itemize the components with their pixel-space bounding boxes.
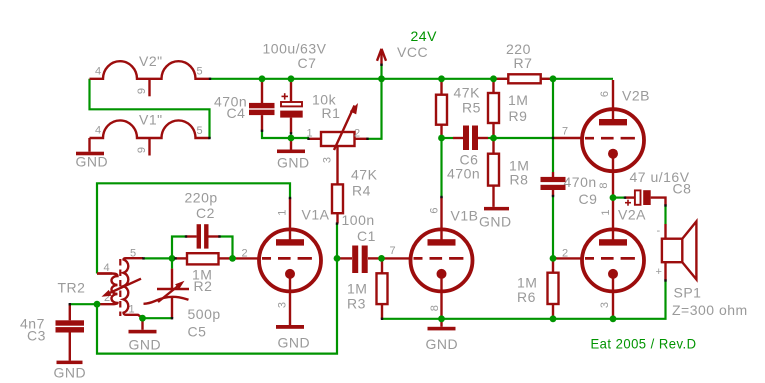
capacitor C6 (442, 137, 454, 139)
ground below TR2 pin1 (141, 318, 143, 330)
svg-text:1M: 1M (508, 92, 528, 108)
V1A grid dashes (262, 257, 312, 260)
svg-text:R9: R9 (509, 108, 528, 124)
svg-text:R4: R4 (352, 183, 371, 199)
wire: V1B pin6 from C6 line down (440, 138, 442, 197)
triode V2B circle (582, 109, 644, 171)
svg-text:47K: 47K (351, 166, 378, 182)
svg-text:R3: R3 (347, 296, 366, 312)
V1B grid dashes (414, 257, 464, 260)
svg-text:GND: GND (277, 155, 310, 171)
wire: bottom bus from R3 to SP1 plus pin (382, 281, 666, 319)
svg-text:V2B: V2B (622, 88, 650, 104)
svg-text:VCC: VCC (397, 44, 428, 60)
svg-text:9: 9 (136, 88, 148, 94)
V2B cathode dot (608, 149, 618, 159)
wire: TR2 pin5 to R2/C2/C5 junction (144, 257, 173, 259)
V1B pin 6 stub (440, 197, 442, 242)
V2A grid dashes (585, 257, 635, 260)
svg-text:R5: R5 (462, 100, 481, 116)
V1B pin 8 stub (440, 274, 442, 319)
svg-text:7: 7 (390, 245, 396, 257)
svg-text:1: 1 (277, 210, 289, 216)
svg-text:V2A: V2A (618, 207, 646, 223)
capacitor C1 plates (352, 246, 358, 274)
V2B anode plate bar (599, 119, 627, 125)
svg-text:GND: GND (129, 337, 162, 353)
svg-text:C3: C3 (27, 328, 46, 344)
capacitor C2 (186, 235, 197, 237)
svg-text:3: 3 (322, 157, 334, 163)
svg-text:3: 3 (599, 302, 611, 308)
wire: R1 pin2 up to VCC rail (368, 79, 382, 139)
svg-text:9: 9 (136, 147, 148, 153)
resistor R7 (494, 78, 509, 80)
R1 pin1 stub (309, 138, 322, 140)
svg-text:6: 6 (429, 207, 441, 213)
svg-text:GND: GND (54, 365, 87, 381)
svg-text:220p: 220p (185, 190, 218, 206)
resistor R2 body (187, 253, 219, 264)
resistor R8 (492, 138, 494, 154)
R1 pin3 down to R4 (336, 146, 338, 184)
svg-text:V1": V1" (139, 111, 163, 127)
svg-text:1M: 1M (347, 281, 367, 297)
svg-text:SP1: SP1 (674, 285, 702, 301)
wire: VCC pin to rail (380, 65, 382, 79)
svg-text:TR2: TR2 (58, 279, 86, 295)
V2B pin 7 stub (553, 137, 583, 139)
svg-text:5: 5 (197, 125, 203, 137)
svg-text:7: 7 (562, 126, 568, 138)
V1A cathode dot (285, 269, 295, 279)
wire: top VCC rail (210, 78, 613, 80)
R1 pin2 stub (355, 138, 368, 140)
wire: V2" pin4 down-right to V1" pin5 (90, 79, 210, 138)
svg-text:C4: C4 (227, 105, 246, 121)
V2A pin 1 stub (612, 198, 614, 242)
TR2 core dashed line (119, 259, 121, 316)
svg-text:470n: 470n (447, 165, 480, 181)
svg-text:100u/63V: 100u/63V (263, 41, 327, 57)
svg-text:100n: 100n (342, 212, 375, 228)
svg-text:C5: C5 (188, 324, 207, 340)
svg-text:470n: 470n (564, 174, 597, 190)
inductor V1" (90, 120, 210, 138)
TR2 pin2 junction to C3 (70, 303, 97, 305)
resistor R3 (381, 258, 383, 273)
svg-text:C7: C7 (298, 55, 317, 71)
svg-text:R8: R8 (510, 172, 529, 188)
VCC supply arrow (380, 50, 382, 65)
pin connection dark dots (69, 64, 667, 320)
capacitor C4 (261, 80, 263, 103)
TR2 adjustment arrow (107, 279, 142, 295)
capacitor C8 (polarized) (613, 197, 626, 199)
TR2 pin4 stub (97, 272, 112, 274)
svg-text:-: - (657, 225, 661, 237)
wire and V2A pin 2 stub (553, 257, 557, 259)
ground below V1B pin 8 (440, 319, 442, 327)
capacitor C3 (69, 304, 71, 320)
potentiometer R1 body (321, 132, 355, 146)
svg-text:6: 6 (599, 91, 611, 97)
svg-text:GND: GND (426, 336, 459, 352)
wire: junction right to V1A pin2 (233, 257, 237, 259)
V1A pin 1 stub (289, 198, 291, 242)
svg-text:4: 4 (104, 262, 110, 274)
triode V2A circle (582, 229, 644, 291)
wire: C8 right down to SP1 minus pin (664, 206, 666, 225)
TR2 secondary winding (124, 258, 144, 318)
svg-text:8: 8 (429, 305, 441, 311)
capacitor C7 (polarized) (290, 80, 292, 102)
capacitor C1 leads (338, 257, 353, 259)
TR2 primary winding (97, 274, 118, 305)
svg-text:4: 4 (95, 66, 101, 78)
V1A anode plate bar (276, 239, 304, 245)
svg-text:C2: C2 (196, 205, 215, 221)
V1A pin 3 stub and ground (289, 274, 291, 325)
ground below R8 (484, 207, 509, 211)
svg-text:Z=300 ohm: Z=300 ohm (672, 302, 748, 318)
wire: C5 bottom to TR2 pin1 junction (143, 317, 173, 319)
V2" center tap pin 9 (148, 79, 150, 97)
SP1 plus pin stub (664, 262, 666, 280)
triode V1A circle (259, 229, 321, 291)
svg-text:+: + (656, 266, 662, 278)
resistor R6 (552, 258, 554, 272)
V2B grid dashes (585, 137, 635, 140)
svg-text:5: 5 (197, 66, 203, 78)
svg-text:V2": V2" (139, 53, 163, 69)
V1A pin 2 stub (234, 257, 260, 259)
speaker SP1 box (662, 239, 682, 263)
svg-text:R7: R7 (514, 55, 533, 71)
svg-text:R6: R6 (517, 289, 536, 305)
V1B anode plate bar (428, 239, 456, 245)
svg-text:GND: GND (278, 335, 311, 351)
svg-text:2: 2 (354, 128, 360, 140)
svg-text:3: 3 (277, 302, 289, 308)
svg-text:500p: 500p (188, 306, 221, 322)
svg-text:4: 4 (95, 125, 101, 137)
resistor R5 (440, 80, 442, 95)
wire: V1A pin1 up, left and down to TR2 pin4 (97, 183, 290, 273)
svg-text:24V: 24V (411, 28, 438, 44)
svg-text:GND: GND (479, 214, 512, 230)
V1" center tap pin 9 (148, 138, 150, 156)
V2A pin 3 stub (612, 274, 614, 319)
wire: C2 branch right side (220, 237, 233, 259)
R1 wiper arrow (334, 106, 355, 151)
ground below V1" pin4 (88, 138, 90, 152)
svg-text:C9: C9 (579, 191, 598, 207)
svg-text:C8: C8 (673, 181, 692, 197)
V1B pin 7 stub (383, 257, 411, 259)
speaker SP1 cone (682, 221, 696, 279)
svg-text:V1B: V1B (451, 208, 479, 224)
capacitor C9 (552, 172, 554, 177)
V2A anode plate bar (599, 239, 627, 245)
V2A cathode dot (608, 269, 618, 279)
triode V1B circle (411, 229, 473, 291)
wire: R4 bottom down, bottom-left bus, up to TR2 pin2 junction (97, 224, 337, 354)
wire: C4/C7 bottom line to R1 pin1 (262, 130, 309, 138)
wire: grid line from R8/R9 junction to V2B pin7 (494, 137, 554, 139)
svg-text:47K: 47K (454, 85, 481, 101)
svg-text:R2: R2 (194, 278, 213, 294)
wire: C7 bottom short to mid line handled above; ground below C7 (290, 138, 292, 150)
svg-text:C1: C1 (357, 228, 376, 244)
wire: C9 column from rail down (552, 79, 554, 172)
V1B cathode dot (437, 269, 447, 279)
svg-text:1: 1 (600, 210, 612, 216)
svg-text:R1: R1 (322, 105, 341, 121)
V2B pin 8 stub down to junction (612, 154, 614, 198)
variable capacitor C5 (171, 258, 173, 268)
resistor R9 (492, 80, 494, 93)
V2B pin 6 stub from rail (612, 80, 614, 122)
svg-text:V1A: V1A (302, 207, 330, 223)
ground below C3 (57, 361, 83, 365)
resistor R4 (332, 184, 343, 213)
svg-text:8: 8 (598, 182, 610, 188)
svg-text:GND: GND (76, 154, 109, 170)
svg-text:Eat 2005 / Rev.D: Eat 2005 / Rev.D (591, 336, 697, 352)
inductor V2" (90, 61, 210, 79)
wire: C2 branch left side (172, 237, 186, 259)
